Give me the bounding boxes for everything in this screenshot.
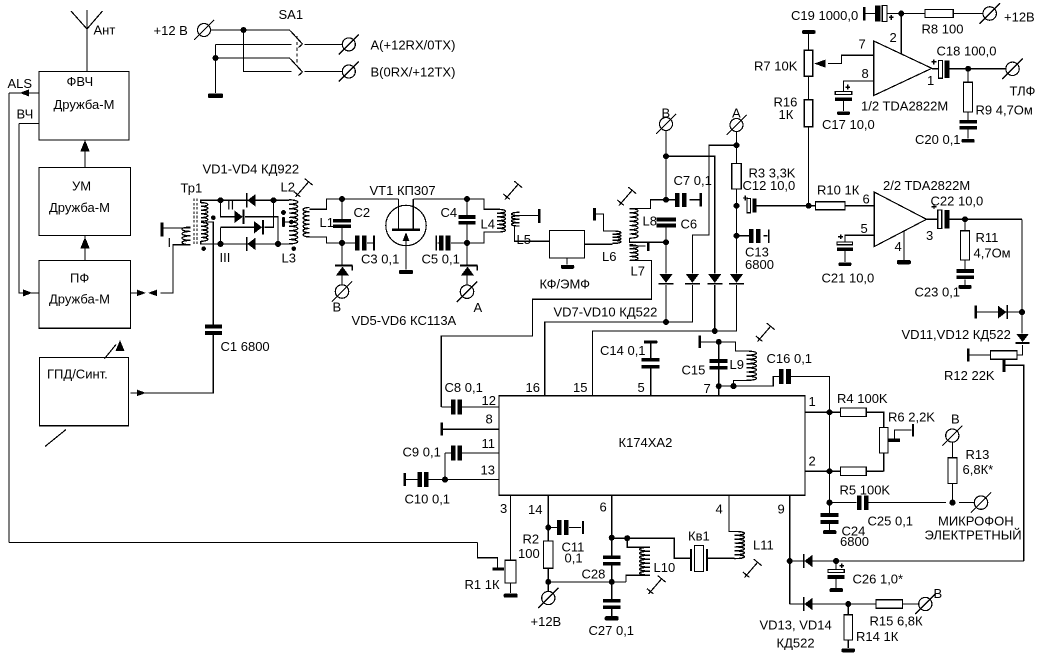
- pin 2 op1: [890, 14, 902, 55]
- terminal B(0RX/+12TX): [339, 62, 456, 82]
- svg-text:VT1 КП307: VT1 КП307: [370, 183, 436, 198]
- op-amp U2 2/2 TDA2822M: [874, 178, 970, 247]
- svg-text:A(+12RX/0TX): A(+12RX/0TX): [371, 38, 456, 53]
- label Тр1: [181, 181, 203, 196]
- wire L7 top: [630, 245, 646, 247]
- pin 15 label: [573, 380, 587, 395]
- svg-text:C23 0,1: C23 0,1: [915, 285, 961, 300]
- capacitor C13 6800: [737, 229, 774, 272]
- pin 13 + capacitor C10 0,1: [404, 463, 499, 507]
- terminal B R13: [942, 412, 962, 446]
- capacitor C15: [682, 342, 728, 386]
- varicap VD5: [335, 243, 352, 285]
- svg-text:7: 7: [859, 37, 866, 52]
- pin 4 + inductor L11: [716, 495, 774, 558]
- svg-text:C12 10,0: C12 10,0: [743, 178, 796, 193]
- wire A line to VD10: [736, 236, 738, 273]
- svg-text:Дружба-М: Дружба-М: [54, 97, 115, 112]
- svg-text:1: 1: [809, 394, 816, 409]
- svg-text:2: 2: [890, 30, 897, 45]
- polarity dot III: [201, 246, 206, 251]
- svg-text:C17 10,0: C17 10,0: [822, 117, 875, 132]
- svg-text:ГПД/Синт.: ГПД/Синт.: [47, 367, 108, 382]
- svg-text:C15: C15: [682, 363, 706, 378]
- svg-text:+12 В: +12 В: [154, 23, 188, 38]
- svg-text:III: III: [220, 250, 231, 265]
- diode VD9: [707, 274, 722, 285]
- polarity dot II: [211, 215, 216, 220]
- ground VT1 gate: [399, 270, 413, 274]
- svg-text:B: B: [934, 586, 943, 601]
- wire L5 bottom to filter: [515, 226, 550, 241]
- svg-text:L10: L10: [654, 560, 676, 575]
- svg-text:16: 16: [526, 380, 540, 395]
- switch SA1 blade 2: [290, 59, 303, 76]
- transformer Тр1 winding I: [168, 227, 191, 250]
- label VD5-VD6 КС113А: [352, 313, 457, 328]
- svg-text:L11: L11: [753, 538, 774, 553]
- svg-text:R15 6,8К: R15 6,8К: [870, 614, 924, 629]
- wire row3: [216, 57, 291, 59]
- pin 12 + capacitor C8 0,1: [441, 380, 499, 415]
- wire R6 bottom: [883, 453, 885, 471]
- svg-text:Дружба-М: Дружба-М: [49, 200, 110, 215]
- pin 1 op1 + capacitor C18 100,0: [927, 44, 1006, 89]
- wire L9 bottom: [731, 380, 748, 389]
- wire L10 bottom: [626, 575, 650, 582]
- wire ПФ to УМ with arrow: [80, 236, 90, 261]
- svg-text:C7 0,1: C7 0,1: [674, 173, 712, 188]
- svg-text:13: 13: [481, 463, 495, 478]
- svg-text:I: I: [168, 235, 172, 250]
- svg-text:C28: C28: [582, 567, 606, 582]
- wire top rail: [201, 197, 289, 203]
- wire УМ to ФВЧ with arrow: [80, 140, 90, 168]
- svg-text:1: 1: [927, 73, 934, 88]
- svg-text:8: 8: [486, 412, 493, 427]
- polarity mark L2/L3 tap: [281, 210, 294, 227]
- wire L1 bottom: [309, 237, 342, 243]
- pin 8 op1 + capacitor C17 10,0: [822, 66, 875, 132]
- filter КФ/ЭМФ: [540, 231, 591, 292]
- diode VD14 row: [790, 601, 876, 607]
- svg-text:ФВЧ: ФВЧ: [67, 74, 94, 89]
- wire ALS long feedback down: [8, 93, 10, 543]
- svg-text:R4 100K: R4 100K: [837, 391, 888, 406]
- node +12V drop to row4: [244, 30, 292, 72]
- wire C22 node down to VD11/VD12: [1019, 219, 1025, 315]
- svg-text:К174ХА2: К174ХА2: [619, 435, 673, 450]
- wire row4 to terminal B: [305, 71, 343, 73]
- svg-text:Ант: Ант: [94, 23, 116, 38]
- terminal B R15: [915, 586, 942, 614]
- svg-text:L7: L7: [631, 264, 645, 279]
- wire pin6 to quartz: [612, 535, 691, 558]
- capacitor C7 0,1: [666, 173, 712, 207]
- svg-text:6: 6: [600, 500, 607, 515]
- diode VD11: [975, 305, 1023, 319]
- connector bar C15 node: [699, 336, 719, 349]
- label VD13 VD14 КД522: [760, 618, 832, 651]
- terminal microphone: [925, 492, 1022, 542]
- pin 7: [704, 339, 722, 396]
- svg-text:C14 0,1: C14 0,1: [600, 343, 646, 358]
- svg-text:Кв1: Кв1: [688, 529, 710, 544]
- label VD1-VD4 КД922: [203, 162, 300, 177]
- diode VD1: [246, 193, 256, 207]
- svg-text:SA1: SA1: [279, 7, 304, 22]
- node A distribution: [734, 132, 740, 164]
- svg-text:Дружба-М: Дружба-М: [49, 292, 110, 307]
- svg-text:A: A: [474, 300, 483, 315]
- transistor VT1 КП307: [386, 199, 426, 270]
- svg-text:7: 7: [704, 381, 711, 396]
- node C6 bottom: [663, 228, 669, 246]
- arrow from ПФ to Тр1: [131, 290, 147, 297]
- svg-text:VD7-VD10 КД522: VD7-VD10 КД522: [554, 305, 658, 320]
- wire row2 left: [216, 44, 292, 46]
- svg-text:R2: R2: [523, 532, 540, 547]
- connector bar input I: [161, 223, 191, 237]
- svg-text:Тр1: Тр1: [181, 181, 203, 196]
- svg-text:УМ: УМ: [72, 179, 91, 194]
- node ALS wire: [8, 76, 40, 96]
- svg-text:1К: 1К: [779, 107, 794, 122]
- capacitor C6: [656, 217, 697, 232]
- svg-text:5: 5: [861, 221, 868, 236]
- pin 7 op1 + R7 wiper: [814, 37, 874, 68]
- svg-text:C25 0,1: C25 0,1: [868, 514, 914, 529]
- svg-text:R13: R13: [966, 447, 990, 462]
- wire C1 to ГПД: [131, 335, 214, 396]
- block ПФ Дружба-М: [39, 261, 131, 329]
- wire rail to L4: [467, 199, 498, 209]
- potentiometer R7 10K: [754, 30, 816, 76]
- svg-text:КД522: КД522: [777, 636, 815, 651]
- svg-text:R1 1К: R1 1К: [465, 577, 500, 592]
- wire L7 bottom long run to C8: [441, 260, 651, 407]
- resistor R9 4,7Ом: [964, 69, 1033, 118]
- svg-text:4: 4: [895, 239, 902, 254]
- diode VD7: [659, 274, 674, 285]
- terminal ТЛФ: [1002, 59, 1035, 99]
- svg-text:VD11,VD12 КД522: VD11,VD12 КД522: [902, 327, 1011, 342]
- inductor L2/L3 winding: [289, 200, 298, 244]
- svg-text:C10 0,1: C10 0,1: [405, 492, 451, 507]
- transformer Тр1 core: [194, 199, 197, 246]
- capacitor C20 0,1: [915, 112, 977, 147]
- ground R1: [504, 583, 518, 598]
- antenna Ант: [71, 10, 115, 72]
- capacitor C16 0,1: [767, 351, 830, 412]
- adjustable core arrow L8: [617, 187, 636, 205]
- connector bar L7/L8 junction: [647, 241, 649, 251]
- wire L8 top to node: [630, 200, 667, 209]
- svg-text:1/2 TDA2822M: 1/2 TDA2822M: [861, 99, 948, 114]
- capacitor C1 6800: [205, 325, 270, 354]
- capacitor C28: [582, 538, 621, 599]
- svg-text:6,8К*: 6,8К*: [963, 462, 994, 477]
- IC К174ХА2: [499, 396, 805, 495]
- label VD7-VD10 КД522: [554, 305, 658, 320]
- node B distribution: [663, 131, 669, 200]
- trimmer tap R6: [888, 424, 914, 442]
- transformer Тр1 winding III: [201, 223, 231, 266]
- svg-text:2: 2: [809, 454, 816, 469]
- svg-text:L2: L2: [281, 180, 295, 195]
- svg-text:+12В: +12В: [1004, 10, 1035, 25]
- svg-text:C22 10,0: C22 10,0: [931, 194, 984, 209]
- wire +12V to switch: [211, 27, 291, 33]
- svg-text:14: 14: [528, 502, 542, 517]
- wire C24 node to C25: [830, 502, 857, 504]
- wire Тр1 center tap to C1: [206, 222, 214, 325]
- terminal +12В bottom: [531, 588, 562, 629]
- svg-text:100: 100: [518, 546, 540, 561]
- capacitor C11 0,1: [548, 520, 584, 566]
- resistor R15 6,8К: [870, 600, 924, 629]
- inductor L1: [303, 208, 334, 237]
- ground КФ/ЭМФ: [561, 258, 575, 269]
- svg-text:C21 10,0: C21 10,0: [822, 271, 875, 286]
- svg-text:0,1: 0,1: [565, 551, 583, 566]
- pin 11 + capacitor C9 0,1: [403, 436, 500, 461]
- svg-text:ЭЛЕКТРЕТНЫЙ: ЭЛЕКТРЕТНЫЙ: [925, 528, 1022, 543]
- svg-text:L1: L1: [320, 215, 334, 230]
- pin 4 op2 ground: [895, 231, 911, 264]
- svg-text:+12В: +12В: [531, 614, 562, 629]
- pin 3 op2 + capacitor C22 10,0: [926, 194, 1022, 244]
- svg-text:L3: L3: [282, 251, 296, 266]
- svg-text:C5 0,1: C5 0,1: [422, 252, 460, 267]
- switch SA1 blade 1: [290, 31, 303, 48]
- adjustable core arrow L2: [294, 179, 313, 197]
- resistor R13 6,8К*: [948, 442, 993, 502]
- wire R2/C28 bottom rail: [548, 579, 626, 585]
- pin 5: [638, 367, 651, 396]
- svg-text:4,7Ом: 4,7Ом: [974, 246, 1011, 261]
- svg-text:КФ/ЭМФ: КФ/ЭМФ: [540, 277, 591, 292]
- pin 8 stub: [440, 412, 499, 436]
- wire VD13 row: [790, 558, 1024, 564]
- label VD11 VD12 КД522: [902, 327, 1011, 342]
- label VT1 КП307: [370, 183, 436, 198]
- wire L1 top to rail: [309, 199, 342, 209]
- label L3: [282, 246, 297, 265]
- svg-text:3: 3: [926, 228, 933, 243]
- ground SA1: [208, 94, 223, 99]
- svg-text:VD5-VD6 КС113А: VD5-VD6 КС113А: [352, 313, 457, 328]
- injection arrow ГПД to ПФ: [105, 340, 125, 359]
- capacitor C14 0,1: [600, 343, 660, 368]
- svg-text:2/2 TDA2822M: 2/2 TDA2822M: [883, 178, 970, 193]
- capacitor C12 10,0: [743, 178, 809, 213]
- svg-text:C3 0,1: C3 0,1: [361, 252, 399, 267]
- pin 14 + resistor R2 100: [518, 495, 553, 568]
- wire L8 bottom: [630, 238, 667, 242]
- wire bottom rail: [201, 241, 289, 247]
- wire pin7 row to C16: [719, 377, 779, 387]
- svg-text:3: 3: [500, 501, 507, 516]
- svg-text:B: B: [951, 412, 960, 427]
- svg-text:C8 0,1: C8 0,1: [445, 380, 483, 395]
- capacitor C23 0,1: [915, 260, 974, 299]
- node L8/C6/C7: [663, 197, 669, 203]
- capacitor C26 1,0*: [828, 561, 903, 592]
- svg-text:VD1-VD4 КД922: VD1-VD4 КД922: [203, 162, 300, 177]
- svg-text:12: 12: [482, 393, 496, 408]
- wire R3 to node: [734, 189, 740, 239]
- switch gang dashed link: [296, 36, 298, 66]
- quartz Кв1: [688, 529, 735, 572]
- svg-text:15: 15: [573, 380, 587, 395]
- svg-text:C19 1000,0: C19 1000,0: [791, 8, 858, 23]
- inductor L4: [481, 209, 506, 232]
- terminal B top: [656, 106, 676, 135]
- wire L4 bottom: [467, 232, 497, 243]
- inductor L6: [602, 231, 621, 264]
- svg-text:L9: L9: [730, 357, 744, 372]
- svg-text:C1 6800: C1 6800: [221, 339, 270, 354]
- svg-text:6: 6: [863, 192, 870, 207]
- resistor R14 1К: [841, 604, 898, 652]
- diode VD3 branch: [221, 200, 274, 244]
- svg-text:C2: C2: [354, 205, 371, 220]
- terminal B varicap: [332, 281, 352, 314]
- svg-text:8: 8: [862, 66, 869, 81]
- svg-text:VD13, VD14: VD13, VD14: [760, 618, 832, 633]
- svg-text:C26 1,0*: C26 1,0*: [853, 572, 904, 587]
- svg-text:ALS: ALS: [8, 76, 33, 91]
- pin 5 op2 + capacitor C21 10,0: [822, 221, 875, 286]
- svg-text:ТЛФ: ТЛФ: [1010, 84, 1036, 99]
- diode VD13: [803, 554, 813, 568]
- svg-text:4: 4: [716, 502, 723, 517]
- capacitor C19 1000,0: [791, 5, 925, 23]
- terminal A top: [727, 106, 747, 136]
- svg-text:R8 100: R8 100: [922, 22, 964, 37]
- wire C9 to pin13 row: [442, 453, 448, 483]
- label SA1: [279, 7, 304, 22]
- node A bottom rail: [464, 240, 470, 246]
- inductor L9: [730, 351, 757, 380]
- capacitor C5 0,1: [422, 236, 468, 267]
- svg-text:6800: 6800: [840, 534, 869, 549]
- wire row2 to terminal A: [305, 44, 343, 46]
- svg-text:R9 4,7Ом: R9 4,7Ом: [976, 103, 1033, 118]
- resistor R10 1К: [809, 183, 875, 210]
- diode VD14: [803, 597, 813, 611]
- trimmer tap R12: [1003, 359, 1024, 561]
- pin 16 label: [526, 380, 540, 395]
- wire L10 top: [627, 538, 650, 547]
- diode VD2 branch: [221, 200, 279, 244]
- capacitor C4: [441, 199, 476, 243]
- adjustable core arrow L9: [756, 323, 775, 341]
- adjustable core arrow L11: [743, 559, 762, 577]
- inductor L10: [640, 547, 676, 575]
- node ВЧ wire: [17, 107, 40, 124]
- diode VD8: [685, 274, 700, 285]
- svg-text:R11: R11: [976, 230, 999, 245]
- svg-text:МИКРОФОН: МИКРОФОН: [938, 514, 1014, 529]
- wire VD7/VD8 to pin16: [545, 285, 693, 396]
- svg-text:B: B: [333, 300, 342, 315]
- svg-text:9: 9: [778, 502, 785, 517]
- label L2: [281, 180, 295, 195]
- pin 6: [600, 495, 615, 541]
- terminal A(+12RX/0TX): [339, 34, 456, 54]
- ground C14 (top bar): [644, 340, 658, 343]
- block УМ Дружба-М: [39, 168, 131, 236]
- adjustable core arrow L10: [647, 576, 666, 594]
- svg-text:R10 1К: R10 1К: [817, 183, 860, 198]
- resistor R11 4,7Ом: [961, 219, 1011, 260]
- adjustable core arrow L4: [503, 181, 522, 199]
- svg-text:B(0RX/+12TX): B(0RX/+12TX): [371, 65, 456, 80]
- wire R1 tap long run to ALS line: [9, 542, 478, 544]
- svg-text:C4: C4: [441, 205, 458, 220]
- svg-text:L5: L5: [517, 232, 531, 247]
- diode VD4: [246, 237, 256, 251]
- pin 9: [778, 495, 793, 604]
- tuning stroke on ГПД: [45, 430, 66, 447]
- trimmer R6 2,2K: [879, 410, 935, 454]
- svg-text:C27 0,1: C27 0,1: [589, 623, 635, 638]
- capacitor C3 0,1: [342, 236, 399, 267]
- op-amp U1 1/2 TDA2822M: [861, 41, 948, 114]
- wire rail VT1 to C4: [413, 196, 470, 202]
- svg-text:R7 10K: R7 10K: [754, 59, 798, 74]
- svg-text:6800: 6800: [745, 257, 774, 272]
- resistor R16 1К: [774, 76, 813, 206]
- wire ВЧ feedback to ПФ: [19, 124, 39, 297]
- svg-text:ПФ: ПФ: [70, 271, 89, 286]
- wire pin1-pin2 bus down: [827, 412, 833, 513]
- node B bottom rail: [339, 240, 345, 246]
- svg-text:R12 22K: R12 22K: [944, 368, 995, 383]
- transformer Тр1 winding II: [201, 198, 234, 222]
- svg-text:R14 1К: R14 1К: [856, 629, 899, 644]
- resistor R8 100: [922, 10, 984, 37]
- node R2 bottom: [545, 568, 551, 591]
- svg-text:R6 2,2K: R6 2,2K: [888, 410, 935, 425]
- wire A to VD8: [692, 145, 736, 273]
- wire filter out to L6: [584, 243, 612, 245]
- pin 1: [805, 394, 833, 415]
- capacitor C2: [333, 199, 370, 243]
- wire B to VD9: [666, 156, 715, 273]
- svg-text:C20 0,1: C20 0,1: [915, 132, 961, 147]
- pin 3 + resistor R1 1К: [465, 495, 517, 592]
- varicap VD6: [460, 243, 477, 285]
- trimmer tap R1: [478, 543, 504, 571]
- svg-text:C9 0,1: C9 0,1: [403, 445, 441, 460]
- svg-text:L8: L8: [643, 214, 657, 229]
- block ФВЧ Дружба-М: [39, 72, 129, 141]
- wire C6 to VD7: [665, 242, 667, 273]
- terminal +12 В: [154, 20, 215, 40]
- inductor L7: [630, 245, 645, 279]
- inductor L8: [630, 209, 657, 239]
- svg-text:11: 11: [482, 436, 496, 451]
- diode VD10: [729, 274, 744, 285]
- wire L9 top: [719, 342, 747, 351]
- resistor R4 100K: [830, 391, 888, 428]
- svg-text:C16 0,1: C16 0,1: [767, 351, 813, 366]
- wire rail C2 to VT1: [339, 196, 399, 202]
- svg-text:5: 5: [638, 380, 645, 395]
